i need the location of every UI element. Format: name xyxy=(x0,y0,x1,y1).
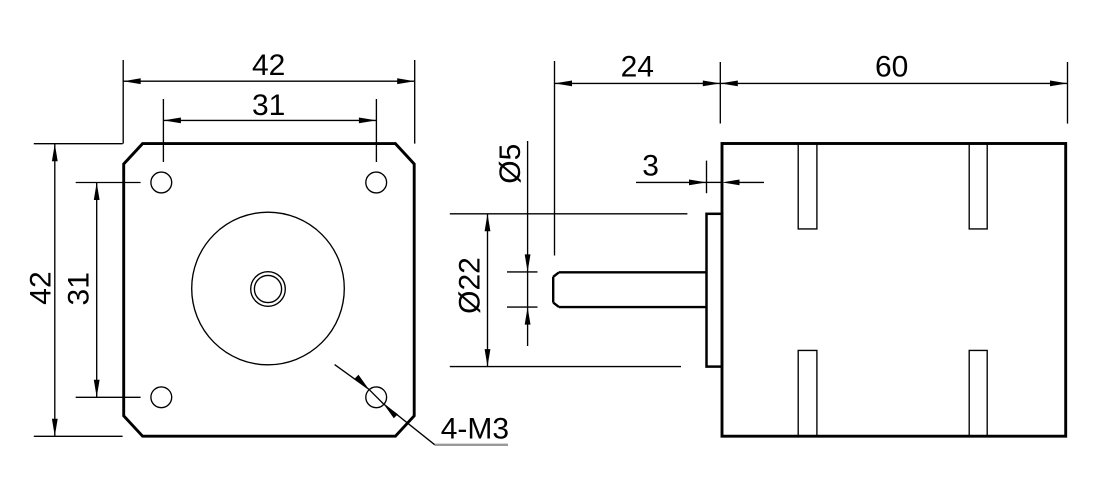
side view body outline xyxy=(722,144,1066,437)
dimension 3 right arrow xyxy=(722,180,740,186)
dimension 42 top extension lines xyxy=(123,60,415,144)
shaft hole outer xyxy=(251,272,286,307)
dimension 31 left line xyxy=(96,183,98,398)
svg-text:31: 31 xyxy=(62,272,95,305)
dimension 3 left arrow xyxy=(689,180,707,186)
svg-text:42: 42 xyxy=(252,49,285,82)
dimension 42 left line xyxy=(54,144,56,437)
pilot boss circle xyxy=(192,212,345,365)
dimension 3 extension line xyxy=(706,161,708,194)
dimension diameter 22 line xyxy=(487,214,489,367)
dimension 42 top line xyxy=(123,80,415,82)
pilot boss plate xyxy=(707,214,723,367)
dimension diameter 5 top arrow xyxy=(525,254,531,272)
dimension 42 left top arrow xyxy=(52,144,58,162)
svg-text:42: 42 xyxy=(24,271,57,304)
dimension 24 left arrow xyxy=(555,81,573,87)
shaft outline xyxy=(553,272,706,307)
svg-text:4-M3: 4-M3 xyxy=(441,412,509,445)
dimension 42 left bottom arrow xyxy=(52,419,58,437)
svg-text:Ø5: Ø5 xyxy=(494,144,527,184)
4-M3 leader line upper segment xyxy=(335,365,369,390)
dimension 3 crossing line xyxy=(707,181,723,183)
dimension 60 right arrow xyxy=(1050,81,1068,87)
dimension 3 right line xyxy=(740,181,765,183)
dimension 60 line xyxy=(720,82,1067,84)
4-M3 underline xyxy=(435,444,508,446)
dimension diameter 22 top arrow xyxy=(485,214,491,232)
dimension 31 top right arrow xyxy=(359,118,377,124)
dimension 31 left top arrow xyxy=(94,183,100,201)
mounting hole top-left xyxy=(151,172,172,193)
mounting hole bottom-right xyxy=(366,387,387,408)
4-M3 leader line through hole xyxy=(369,389,384,404)
shaft top extension tick xyxy=(507,271,538,273)
dimension 3 left line xyxy=(636,181,707,183)
svg-text:3: 3 xyxy=(642,150,659,183)
dimension diameter 22 bottom arrow xyxy=(485,349,491,367)
mounting hole bottom-left xyxy=(151,387,172,408)
dimension 24 line xyxy=(555,82,721,84)
shaft bottom extension tick xyxy=(507,306,538,308)
svg-text:31: 31 xyxy=(252,89,285,122)
dimension 24/60 shared extension line xyxy=(719,62,721,124)
dimension 31 top left arrow xyxy=(163,118,181,124)
dimension 31 left extension lines xyxy=(76,183,141,398)
svg-text:24: 24 xyxy=(621,51,654,84)
4-M3 leader line lower segment xyxy=(384,404,435,445)
dimension diameter 5 leader line xyxy=(527,141,529,346)
mounting hole top-right xyxy=(366,172,387,193)
dimension 24 right arrow xyxy=(703,81,721,87)
dimension 60 extension line right xyxy=(1067,62,1069,124)
4-M3 leader arrow into hole xyxy=(354,375,368,389)
stator notch top-right xyxy=(969,144,987,229)
dimension 31 left bottom arrow xyxy=(94,380,100,398)
dimension 60 left arrow xyxy=(720,81,738,87)
dimension 31 top line xyxy=(163,119,376,121)
shaft hole inner xyxy=(254,275,281,302)
dimension 31 top extension lines xyxy=(163,99,376,162)
svg-text:Ø22: Ø22 xyxy=(454,257,487,314)
dimension 24 extension line left xyxy=(554,61,556,256)
stator notch top-left xyxy=(798,144,817,229)
dimension 42 left extension lines xyxy=(34,144,123,437)
dimension 42 top right arrow xyxy=(397,78,415,84)
dimension diameter 5 bottom arrow xyxy=(525,307,531,325)
svg-text:60: 60 xyxy=(875,51,908,84)
stator notch bottom-left xyxy=(798,350,817,436)
front view motor outline xyxy=(124,144,415,437)
dimension diameter 22 extension lines xyxy=(450,214,688,367)
stator notch bottom-right xyxy=(969,350,987,436)
dimension 42 top left arrow xyxy=(123,78,141,84)
4-M3 leader arrow from below xyxy=(384,404,398,418)
